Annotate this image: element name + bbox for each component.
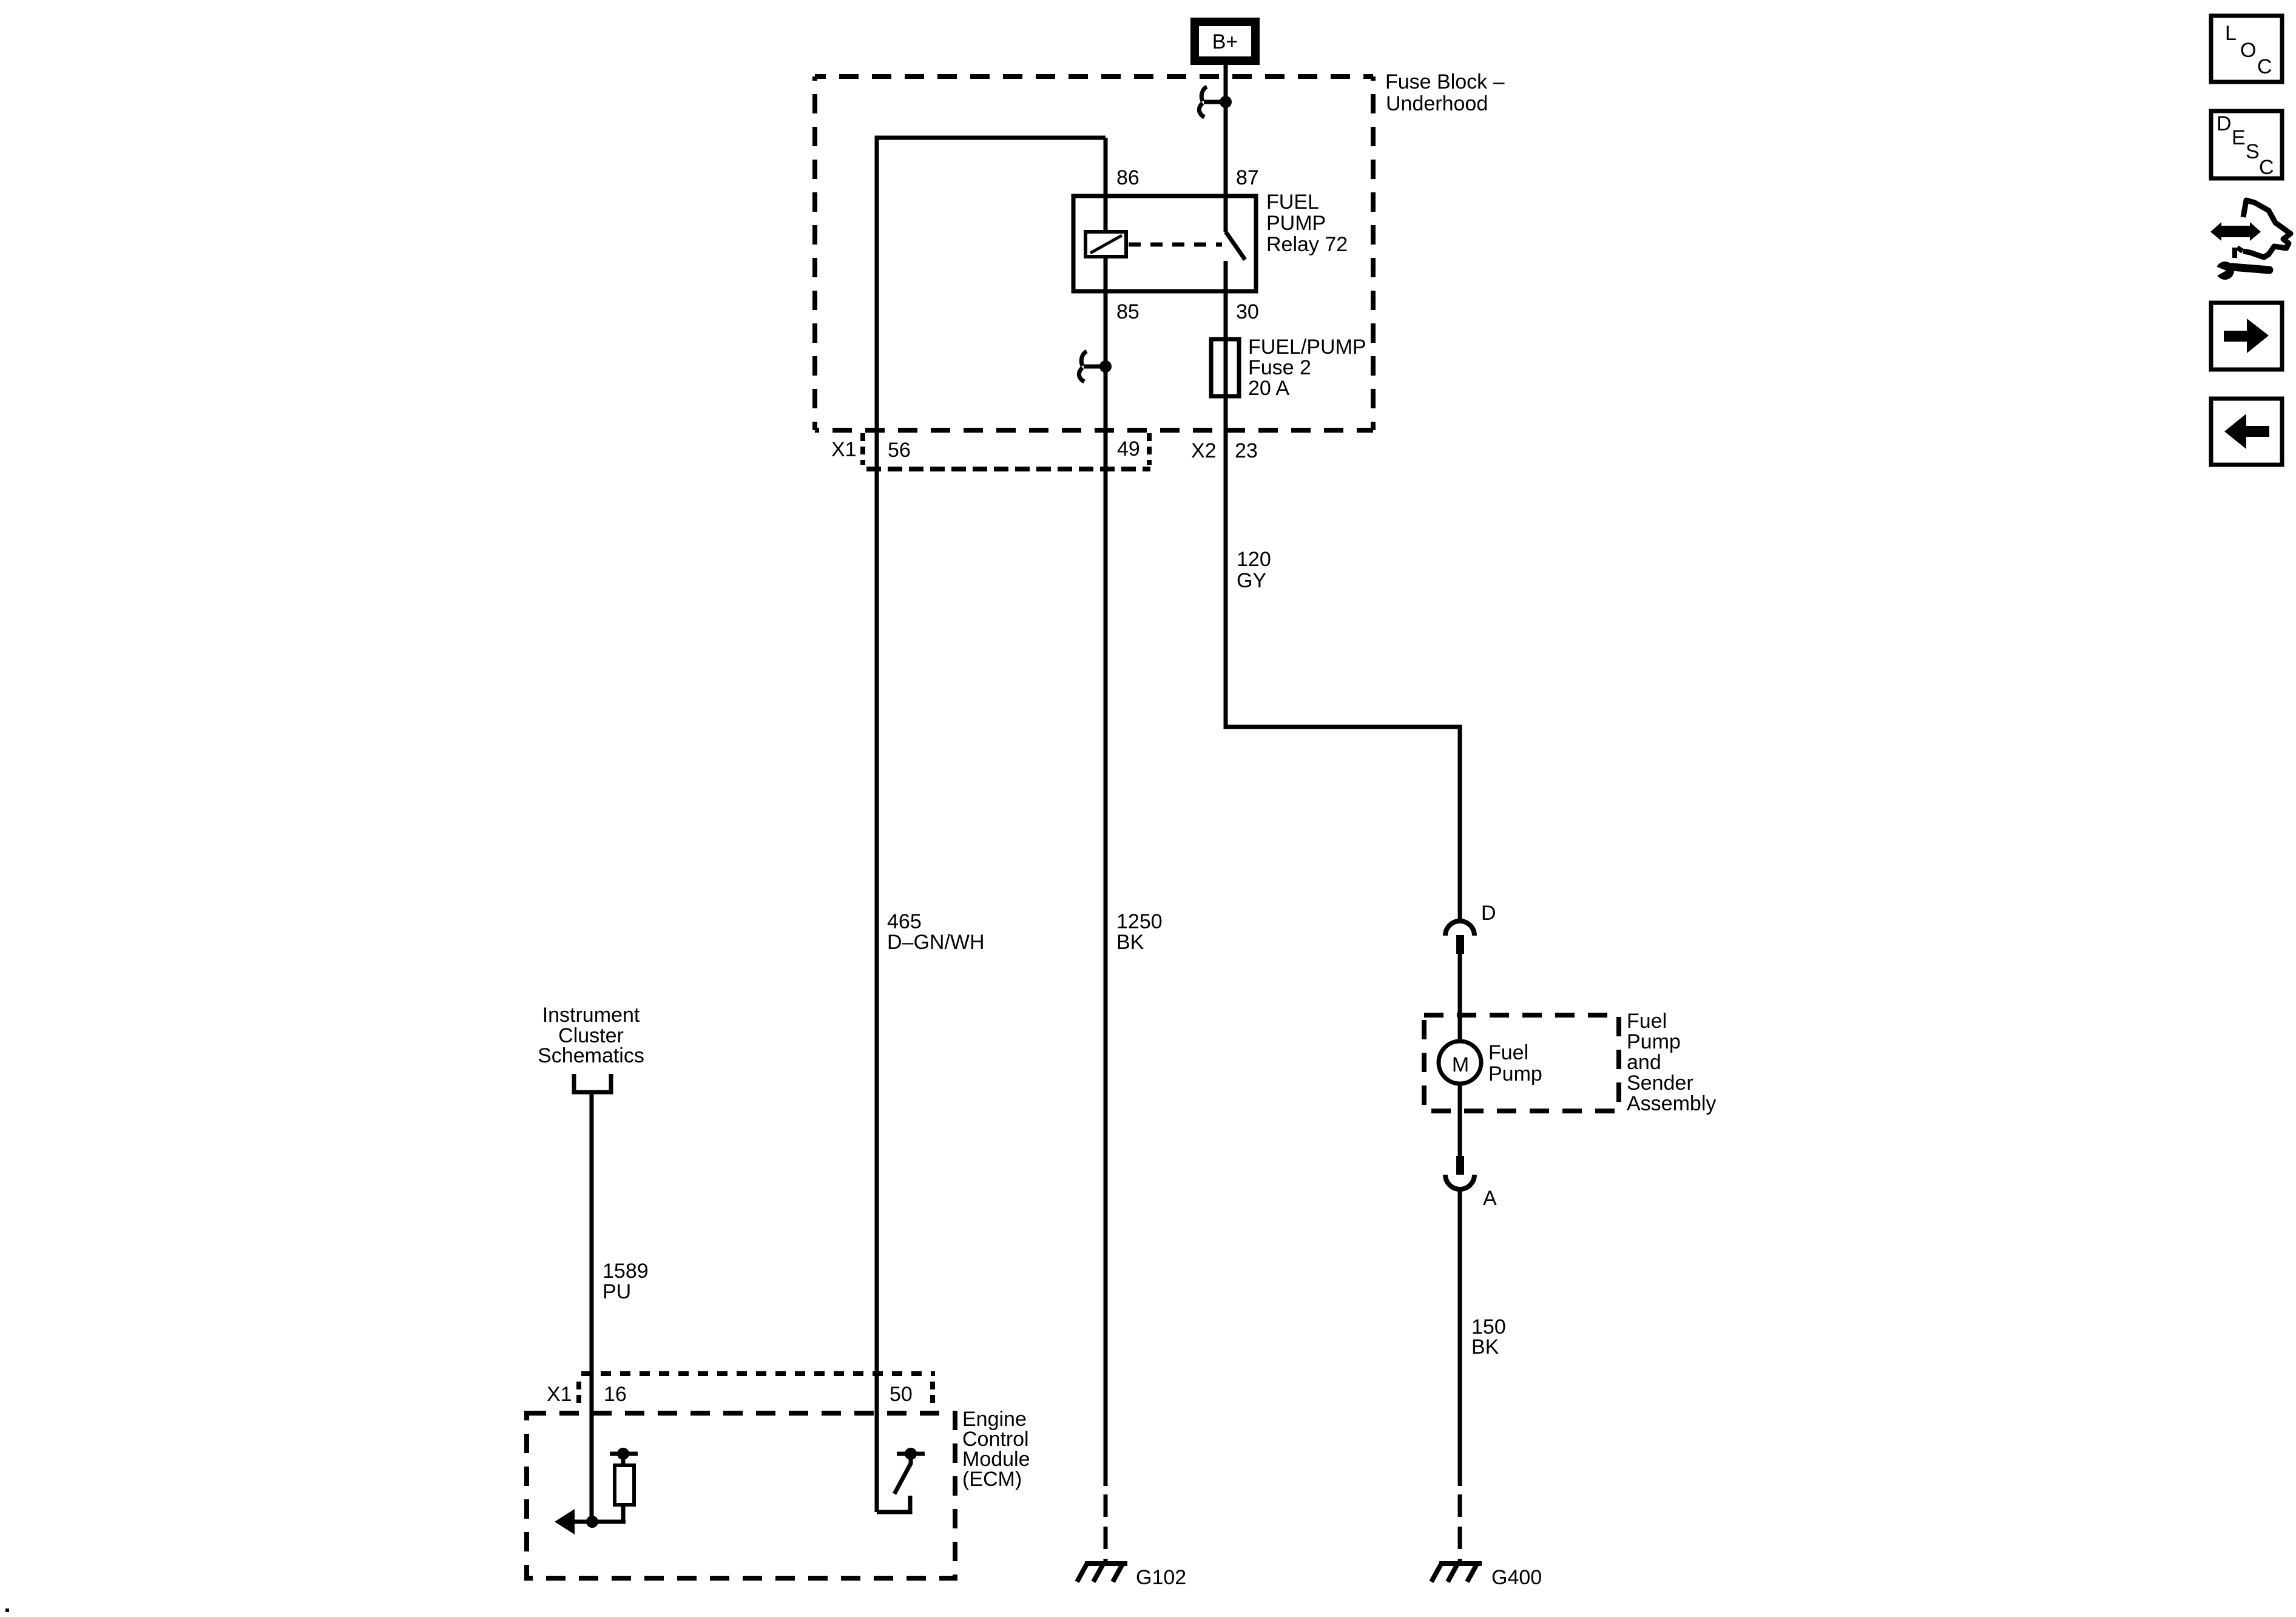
ground G102 xyxy=(1077,1563,1127,1582)
svg-text:23: 23 xyxy=(1235,439,1258,462)
connector A xyxy=(1445,1156,1474,1189)
ECM dashed box xyxy=(527,1413,955,1578)
fuse FUEL/PUMP Fuse 2 20A xyxy=(1211,339,1239,396)
wire connector D to fuel pump xyxy=(1458,954,1462,1041)
nav icon DESC xyxy=(2211,111,2282,179)
connector X1/X2 row at fuse block bottom xyxy=(863,433,1150,469)
svg-text:16: 16 xyxy=(604,1383,627,1406)
wire B+ to relay pin 87 xyxy=(1224,65,1228,196)
svg-text:S: S xyxy=(2246,140,2260,163)
wire 1250 BK dashed lead-in to ground xyxy=(1104,1494,1108,1562)
svg-text:87: 87 xyxy=(1236,166,1259,189)
svg-text:C: C xyxy=(2259,156,2274,179)
connector D xyxy=(1445,921,1474,954)
svg-text:B+: B+ xyxy=(1212,30,1238,53)
ground G400 xyxy=(1431,1563,1482,1582)
relay internal dashed link xyxy=(1129,243,1222,247)
svg-text:G400: G400 xyxy=(1491,1566,1542,1589)
svg-text:56: 56 xyxy=(888,439,911,462)
relay switch xyxy=(1226,198,1245,292)
svg-text:50: 50 xyxy=(890,1383,913,1406)
clip on wire 85 xyxy=(1079,351,1112,382)
svg-text:85: 85 xyxy=(1116,300,1140,323)
svg-text:Fuse Block –Underhood: Fuse Block –Underhood xyxy=(1385,70,1505,115)
wire relay pin 85 down to G102 (1250 BK) xyxy=(1104,138,1108,1486)
nav icon back arrow xyxy=(2211,399,2282,465)
svg-text:L: L xyxy=(2225,22,2237,45)
svg-text:120GY: 120GY xyxy=(1237,548,1271,592)
svg-text:49: 49 xyxy=(1117,437,1140,461)
off-page connector bracket to instrument cluster xyxy=(574,1074,611,1092)
relay K72 box xyxy=(1073,196,1256,291)
clip on B+ wire xyxy=(1199,87,1232,117)
wire 465 circuit: ECM pin 50 up over to relay pin 86 xyxy=(877,138,1106,1512)
fuel pump motor M xyxy=(1439,1041,1481,1084)
wire 150 BK to G400 xyxy=(1458,1189,1462,1486)
wire 120 GY from fuse to fuel pump connector D xyxy=(1226,292,1460,920)
svg-text:D: D xyxy=(2217,112,2232,135)
svg-text:O: O xyxy=(2240,39,2256,62)
svg-text:X2: X2 xyxy=(1191,439,1217,462)
nav icon adjust/repair (double arrow, part outline, wrench) xyxy=(2210,200,2291,280)
svg-text:G102: G102 xyxy=(1136,1566,1186,1589)
nav icon forward arrow xyxy=(2211,303,2282,370)
resistor in ECM xyxy=(615,1454,634,1522)
nav icon LOC xyxy=(2211,16,2282,82)
wire 1589 PU xyxy=(590,1092,594,1522)
connector X1 row at ECM top xyxy=(579,1374,935,1406)
fuel pump and sender assembly dashed box xyxy=(1424,1015,1619,1111)
junction dot xyxy=(586,1516,598,1528)
svg-text:86: 86 xyxy=(1116,166,1140,189)
ECM internal connection bar over driver switch xyxy=(897,1448,925,1460)
wire 150 BK dashed lead-in to ground xyxy=(1458,1494,1462,1562)
svg-text:X1: X1 xyxy=(547,1383,572,1406)
relay coil xyxy=(1086,232,1126,257)
ECM internal connection bar over resistor xyxy=(610,1448,638,1460)
battery feed terminal B+ xyxy=(1190,18,1260,65)
svg-text:C: C xyxy=(2257,55,2272,78)
svg-text:30: 30 xyxy=(1236,300,1259,323)
page artifact dot bottom-left xyxy=(5,1609,9,1612)
fuse block underhood dashed box xyxy=(815,76,1373,430)
svg-text:A: A xyxy=(1483,1187,1497,1210)
ECM driver switch xyxy=(877,1455,911,1512)
svg-text:M: M xyxy=(1452,1053,1469,1076)
svg-text:E: E xyxy=(2232,126,2246,149)
ECM internal wire to arrow xyxy=(573,1520,626,1524)
svg-text:D: D xyxy=(1481,902,1496,925)
svg-text:X1: X1 xyxy=(831,438,857,461)
svg-text:EngineControlModule(ECM): EngineControlModule(ECM) xyxy=(962,1408,1030,1491)
arrow internal circuit continues xyxy=(555,1509,575,1534)
wire fuel pump to connector A xyxy=(1458,1084,1462,1156)
